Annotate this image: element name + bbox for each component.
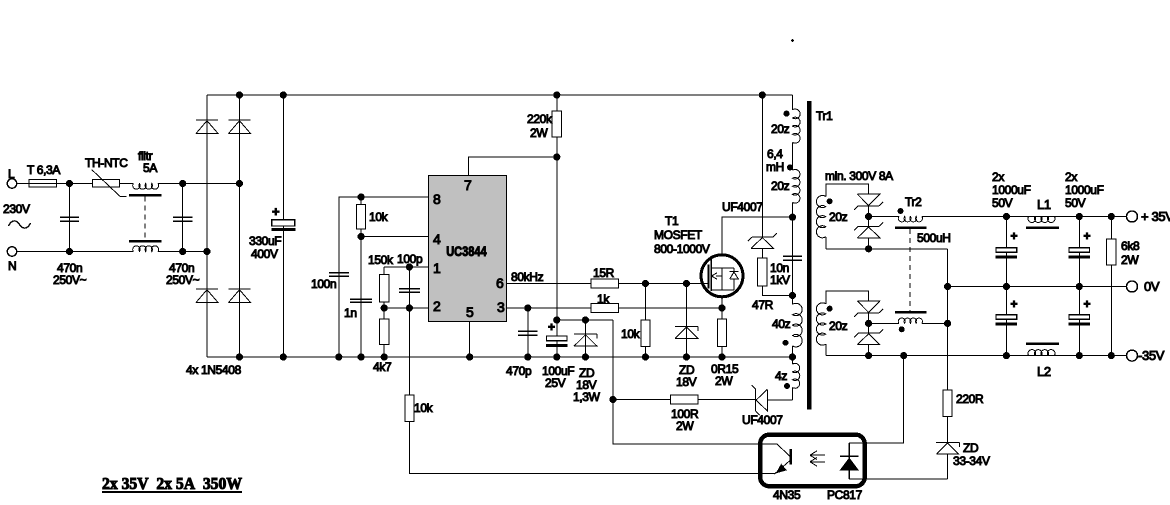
svg-text:10k: 10k [369,210,389,224]
svg-text:47R: 47R [752,298,774,312]
svg-text:2W: 2W [530,126,548,140]
svg-text:L: L [8,167,15,181]
svg-text:1000uF: 1000uF [992,183,1031,197]
svg-text:80kHz: 80kHz [511,270,544,284]
svg-text:2x: 2x [992,170,1004,184]
svg-text:+ 35V: + 35V [1141,209,1170,224]
svg-text:4: 4 [433,231,441,247]
svg-text:1,3W: 1,3W [573,390,601,404]
svg-text:470p: 470p [506,364,532,378]
svg-text:+: + [1084,297,1091,311]
svg-text:-35V: -35V [1138,348,1165,363]
svg-text:10k: 10k [414,401,434,415]
svg-text:2x 35V 2x 5A 350W: 2x 35V 2x 5A 350W [102,474,242,493]
svg-text:2W: 2W [715,374,733,388]
svg-text:UC3844: UC3844 [446,244,487,259]
svg-text:ZD: ZD [963,441,979,455]
svg-text:18V: 18V [676,375,697,389]
svg-text:5A: 5A [143,161,157,175]
svg-text:N: N [8,259,16,273]
svg-text:6,4: 6,4 [767,147,783,161]
svg-text:1000uF: 1000uF [1065,183,1104,197]
svg-text:+: + [548,320,555,334]
svg-text:400V: 400V [251,247,278,261]
svg-text:20z: 20z [771,179,790,193]
svg-text:150k: 150k [368,253,394,267]
svg-text:2x: 2x [1065,170,1077,184]
svg-text:+: + [1084,229,1091,243]
svg-text:33-34V: 33-34V [953,454,990,468]
svg-text:330uF: 330uF [249,234,281,248]
svg-text:+: + [1011,229,1018,243]
svg-text:L2: L2 [1037,364,1051,379]
svg-text:+: + [272,204,280,219]
svg-text:6k8: 6k8 [1121,239,1140,253]
svg-text:PC817: PC817 [827,488,863,500]
svg-text:7: 7 [464,177,472,193]
svg-text:4z: 4z [775,369,787,383]
svg-text:25V: 25V [545,376,566,390]
svg-text:20z: 20z [771,122,790,136]
svg-text:T1: T1 [665,214,679,228]
svg-text:0V: 0V [1144,279,1160,294]
svg-text:Tr1: Tr1 [816,109,833,123]
svg-text:Tr2: Tr2 [905,195,922,209]
svg-text:6: 6 [496,275,504,291]
svg-text:1k: 1k [597,292,610,306]
svg-text:min. 300V 8A: min. 300V 8A [825,169,893,183]
svg-text:15R: 15R [593,266,615,280]
svg-text:1: 1 [433,260,441,276]
svg-text:4k7: 4k7 [373,360,392,374]
svg-text:4N35: 4N35 [773,488,801,500]
svg-text:TH-NTC: TH-NTC [85,156,128,170]
svg-text:UF4007: UF4007 [722,200,763,214]
svg-text:2: 2 [433,298,441,314]
svg-text:220R: 220R [956,392,984,406]
svg-text:1kV: 1kV [770,273,790,287]
svg-text:MOSFET: MOSFET [654,228,703,242]
svg-text:T 6,3A: T 6,3A [27,163,60,177]
svg-text:20z: 20z [829,319,848,333]
svg-text:250V~: 250V~ [53,273,87,287]
svg-text:40z: 40z [772,317,791,331]
svg-text:500uH: 500uH [917,231,951,245]
svg-text:50V: 50V [1065,196,1086,210]
svg-text:1n: 1n [344,306,357,320]
svg-text:3: 3 [497,299,505,315]
svg-text:50V: 50V [992,196,1013,210]
svg-text:2W: 2W [676,419,694,433]
svg-text:230V: 230V [3,202,30,216]
svg-text:2W: 2W [1121,253,1139,267]
svg-text:8: 8 [433,191,441,207]
svg-text:100n: 100n [311,277,336,291]
svg-text:L1: L1 [1037,197,1051,212]
svg-text:UF4007: UF4007 [742,413,783,427]
svg-text:220k: 220k [527,112,553,126]
svg-text:20z: 20z [829,210,848,224]
svg-text:4x 1N5408: 4x 1N5408 [186,363,242,377]
svg-text:5: 5 [466,304,474,320]
svg-text:250V~: 250V~ [166,273,200,287]
svg-text:100p: 100p [397,252,423,266]
svg-text:800-1000V: 800-1000V [654,242,710,256]
svg-text:10k: 10k [621,327,641,341]
svg-text:mH: mH [766,160,784,174]
svg-text:+: + [1011,297,1018,311]
